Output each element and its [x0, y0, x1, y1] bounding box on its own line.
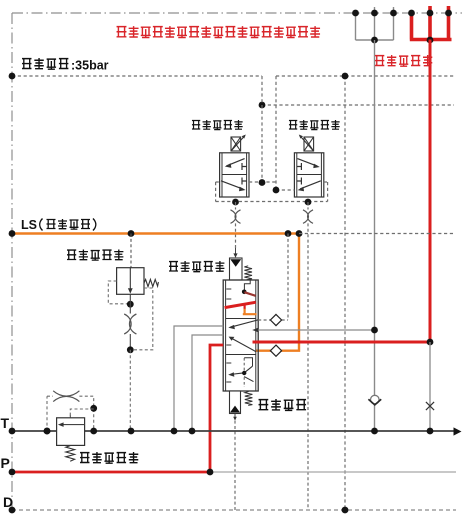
main valve spring bottom return spring	[245, 392, 253, 406]
orifice restrictor holding horizontal	[53, 391, 79, 402]
node D x345	[342, 507, 349, 514]
wire valve right red y342 to cylinder	[253, 341, 431, 344]
wire lift pilot to main valve	[235, 223, 237, 248]
node P left end	[9, 469, 16, 476]
node main valve bottom cell	[242, 371, 246, 375]
wire valve right gray y330	[258, 329, 374, 331]
node fork top A2	[371, 10, 378, 17]
main valve top actuator triangle	[230, 259, 241, 267]
node LS pilot branch x288	[285, 230, 292, 237]
holding valve V2 body	[57, 418, 85, 446]
wire red fork to lift cylinder	[410, 6, 452, 40]
node servo x345	[342, 73, 349, 80]
node relief drain junction	[127, 346, 134, 353]
main valve maroon passage	[244, 292, 255, 296]
node red fork top B1	[408, 10, 415, 17]
wire holding pilot left riser	[47, 396, 53, 431]
relief valve V1 body	[117, 268, 144, 295]
valve U1 lift solenoid body	[220, 153, 249, 197]
lift valve top cell blocked port T	[242, 163, 247, 170]
wire holding pilot right	[79, 396, 93, 431]
wire valve left port B to T x192	[192, 335, 223, 431]
svg-text:P: P	[1, 455, 10, 471]
node work line junction	[371, 327, 378, 334]
main valve pilot tube bottom	[230, 391, 241, 414]
wire holding pilot inner	[70, 409, 93, 418]
node pilot x262 y182	[259, 179, 266, 186]
label text 下降电磁阀	[289, 120, 340, 130]
node LS corner x299	[296, 230, 303, 237]
wire red cylinder line x430	[429, 40, 432, 343]
relief valve V1 spring	[144, 279, 158, 286]
valve U2 lower solenoid body	[294, 153, 323, 197]
wire P pressure line red	[12, 471, 210, 474]
main valve bottom cell pilot dashes	[243, 358, 245, 387]
node relief outlet	[127, 301, 134, 308]
wire pilot y190	[276, 189, 294, 191]
main valve top cell port ticks	[226, 289, 231, 299]
label text 压力保持阀	[80, 452, 138, 463]
wire drain drop x308	[307, 223, 309, 510]
node lower valve drain	[305, 199, 312, 206]
label text 起升电磁阀	[192, 120, 243, 130]
lower valve top cell blocked port T	[297, 163, 302, 170]
main valve pilot tube top	[230, 258, 243, 280]
main valve middle cell tick	[226, 344, 231, 346]
holding valve pilot stub	[69, 415, 71, 418]
wire work line x374	[374, 40, 376, 431]
wire pilot line y105	[262, 104, 454, 106]
label text 回位弹簧	[259, 399, 307, 410]
main valve middle cell arrow 2	[230, 338, 255, 352]
wire pilot box left side	[216, 182, 220, 202]
orifice restrictor under lift valve	[231, 210, 241, 224]
node holding pilot junction	[90, 405, 97, 412]
wire relief orifice bottom	[129, 334, 131, 350]
wire P continuation gray	[210, 471, 456, 473]
lower valve bottom cell blocked port T	[297, 178, 302, 185]
orifice restrictor relief	[124, 314, 136, 334]
node fork top A3	[390, 10, 397, 17]
main valve red passage top cell	[225, 302, 256, 307]
node fork merge A	[371, 37, 378, 44]
node T line x430	[427, 428, 434, 435]
lower valve bottom cell flow arrow	[300, 181, 321, 189]
main valve spring top	[244, 266, 252, 280]
node pilot x276 y190	[273, 187, 280, 194]
lift valve bottom cell flow arrow	[221, 181, 243, 189]
holding valve V2 internal arrow	[62, 424, 85, 426]
wire gray fork to work port	[356, 7, 394, 40]
main valve bottom cell diagonals	[230, 366, 253, 374]
wire pilot box bottom	[216, 201, 328, 203]
node lift valve drain	[232, 199, 239, 206]
wire pilot drop x276	[275, 76, 277, 190]
svg-text:LS: LS	[21, 218, 37, 232]
check valve diamond upper	[270, 314, 281, 325]
relief valve V1 internal arrow	[129, 268, 131, 289]
wire valve left port A to T x174	[174, 326, 223, 431]
node junction x262 y105	[259, 102, 266, 109]
node T line x374.5	[371, 428, 378, 435]
wire gray below red corner x430	[429, 342, 431, 431]
main valve top cell pilot line	[244, 280, 250, 292]
label text 升降主阀芯	[169, 261, 224, 272]
wire valve right pilot dashed y320	[258, 234, 288, 321]
wire LS branch down to valve port orange	[256, 234, 299, 351]
wire drain drop x345	[344, 76, 346, 510]
label title 正面吊吊臂起升主阀液压油路原理图	[117, 26, 321, 37]
label text 压力释放阀	[67, 250, 123, 261]
node fork top A1	[352, 10, 359, 17]
check valve ball and seat x374	[371, 395, 380, 404]
wire servo pressure line left segment	[12, 75, 262, 77]
wire relief pilot left	[108, 281, 127, 304]
wire relief outlet	[129, 294, 131, 313]
node T line x12	[9, 428, 16, 435]
node red fork top B2	[427, 10, 434, 17]
node T line x47	[44, 428, 51, 435]
main valve middle cell arrow 1	[230, 320, 258, 328]
cross plugged port x430	[426, 402, 434, 410]
label text 负载信号	[47, 219, 91, 229]
svg-text::35bar: :35bar	[71, 59, 109, 73]
node main valve internal pilot	[242, 290, 247, 295]
node T line x174	[171, 428, 178, 435]
lift valve bottom cell blocked port T	[242, 178, 247, 185]
orifice restrictor under lower valve	[303, 210, 313, 224]
label text 去升降油缸	[375, 55, 432, 66]
wire servo pressure line right segment	[276, 75, 454, 77]
border frame top	[12, 12, 462, 14]
wire LS dashed extension right	[299, 233, 454, 235]
main valve bottom cell ticks	[226, 363, 231, 382]
solenoid actuator lift valve	[231, 136, 245, 151]
check valve diamond lower on orange	[270, 345, 281, 356]
wire pilot box right side	[324, 182, 328, 202]
wire lift orifice stub	[235, 202, 237, 210]
main valve bottom stub arrow	[234, 414, 236, 420]
wire red P riser to valve	[210, 345, 223, 472]
node LS release valve branch	[128, 230, 135, 237]
node holding T left	[44, 428, 51, 435]
lower valve top cell flow arrow	[297, 159, 317, 167]
node red corner x430	[427, 339, 434, 346]
wire pilot y182	[249, 181, 276, 183]
wire D drain line dashed	[12, 509, 456, 511]
border frame left	[11, 13, 13, 510]
label text 伺服压力	[22, 58, 68, 69]
wire pilot drop x262	[261, 76, 263, 182]
wire T return line	[12, 430, 454, 432]
wire main valve bottom drain dashed	[234, 421, 236, 510]
node holding T right	[90, 428, 97, 435]
wire relief drain to T	[129, 350, 131, 431]
node T line x131	[128, 428, 135, 435]
wire LS load signal line orange	[12, 232, 299, 234]
main valve orange passage top cell	[243, 309, 257, 314]
main valve bottom actuator triangle	[230, 406, 240, 413]
wire relief pilot right loop	[134, 288, 153, 350]
main valve body spool	[223, 280, 258, 391]
solenoid actuator lower valve	[300, 136, 314, 151]
node LS left end	[9, 230, 16, 237]
holding valve spring	[66, 446, 75, 462]
wire lower orifice stub	[307, 202, 309, 210]
node D left end	[9, 507, 16, 514]
node servo line left end	[9, 73, 16, 80]
wire LS feed to release valve	[130, 234, 132, 268]
node T line x192	[189, 428, 196, 435]
node red fork top B3	[445, 10, 452, 17]
lift valve top cell flow arrow	[226, 159, 244, 166]
node red fork merge B	[427, 37, 434, 44]
node P riser junction	[207, 469, 214, 476]
T line end arrowhead	[454, 427, 462, 435]
svg-text:T: T	[1, 415, 10, 431]
